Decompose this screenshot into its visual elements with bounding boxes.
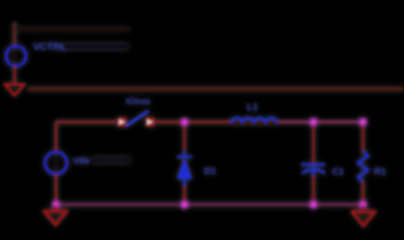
wire above VCTRL source [13, 22, 15, 46]
svg-text:C1: C1 [332, 167, 345, 178]
wire stub to ground bottom-right [362, 205, 364, 212]
resistor R1 [358, 151, 368, 182]
wire left vertical lower [55, 174, 57, 205]
svg-text:R1: R1 [374, 167, 387, 178]
switch U1 terminal right [146, 118, 155, 127]
wire stub to ground bottom-left [54, 205, 56, 212]
diode D1 [177, 151, 192, 187]
wire mid rail purple tint [279, 121, 363, 123]
capacitor C1 bottom lead [312, 176, 314, 204]
wire mid rail right of switch [155, 121, 231, 123]
wire mid rail left [56, 121, 118, 123]
svg-text:VCTRL: VCTRL [33, 42, 66, 53]
ground bottom-left [44, 212, 67, 226]
wire 0V rail [28, 87, 404, 91]
diode D1 top lead [183, 122, 185, 150]
switch U1 lever [126, 111, 149, 126]
svg-text:L1: L1 [247, 102, 259, 113]
resistor R1 bottom lead [362, 182, 364, 204]
svg-text:VIN: VIN [73, 156, 89, 167]
ground top-left [5, 85, 24, 96]
capacitor C1 [301, 165, 325, 178]
wire below VCTRL source [13, 66, 15, 84]
ground bottom-right [352, 212, 375, 226]
svg-text:D1: D1 [204, 166, 217, 177]
voltage source VCTRL [6, 46, 26, 66]
label ghost streak VIN [92, 158, 130, 163]
junction dot glow [52, 118, 368, 210]
switch U1 terminal left [118, 118, 127, 127]
wire bottom rail [56, 203, 363, 205]
label ghost streak [64, 44, 128, 49]
wire mid rail after inductor [277, 121, 363, 123]
svg-text:tClose: tClose [126, 97, 151, 106]
diode D1 bottom lead [183, 186, 185, 204]
capacitor C1 top lead [312, 122, 314, 163]
faint wire from VCTRL node [14, 28, 130, 30]
inductor L1 [231, 118, 277, 123]
wire under inductor [231, 122, 277, 124]
resistor R1 top lead [362, 122, 364, 151]
voltage source VIN [45, 152, 67, 174]
wire left vertical upper [55, 122, 57, 152]
gray halo under wires [15, 24, 364, 205]
